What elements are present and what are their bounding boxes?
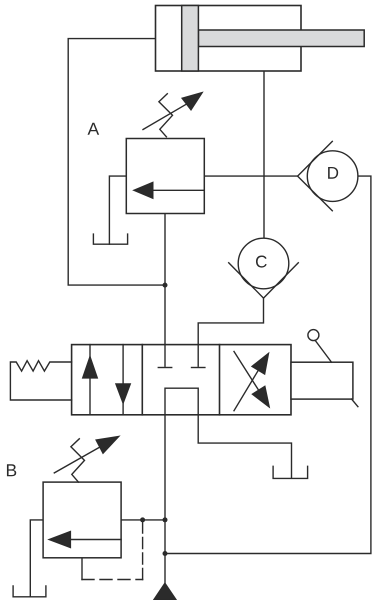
valve left position up arrow bbox=[89, 345, 91, 415]
wire cylinder bottom to C bbox=[263, 71, 265, 238]
wire A right port to D bbox=[204, 175, 297, 177]
label D bbox=[328, 167, 338, 179]
directional valve outer box bbox=[72, 345, 291, 415]
cylinder body bbox=[156, 6, 302, 72]
valve centre blocked port right bbox=[197, 345, 199, 367]
tank at valve T port bbox=[273, 466, 308, 478]
wire B right port bbox=[121, 519, 165, 521]
wire C bottom to valve port bbox=[198, 298, 263, 345]
wire dashed drain horizontal bbox=[82, 579, 143, 581]
valve A adjustment arrow bbox=[143, 104, 187, 130]
wire dashed drain vertical bbox=[142, 522, 144, 580]
valve lever knob bbox=[308, 330, 319, 341]
tank under A bbox=[93, 234, 127, 244]
valve A pressure reducer box bbox=[126, 139, 204, 214]
valve lever handle bbox=[315, 340, 331, 362]
wire valve bottom right to tank bbox=[198, 415, 291, 478]
label A bbox=[88, 123, 100, 135]
node junction dot bottom corner bbox=[163, 551, 168, 556]
node junction dot left riser bbox=[163, 283, 168, 288]
valve B flow arrow bbox=[66, 539, 121, 541]
valve centre blocked port left bbox=[164, 345, 166, 367]
check valve D circle bbox=[307, 151, 358, 202]
valve right position diagonal up arrow bbox=[234, 370, 258, 410]
cylinder rod bbox=[198, 30, 364, 47]
valve A flow arrow bbox=[150, 189, 204, 191]
wire B pilot to tank bbox=[30, 520, 43, 597]
node junction dot B outlet bbox=[163, 517, 168, 522]
wire cylinder left port bbox=[68, 39, 165, 286]
cylinder piston bbox=[182, 6, 199, 72]
valve lever detent tick bbox=[352, 399, 358, 407]
wire main vertical A-to-valve bbox=[164, 214, 166, 345]
valve B pressure relief box bbox=[43, 482, 121, 558]
directional valve divider right bbox=[219, 345, 221, 415]
valve spring return bbox=[10, 361, 71, 400]
directional valve divider left bbox=[141, 345, 143, 415]
label C bbox=[256, 256, 267, 268]
wire A pilot to tank bbox=[109, 176, 126, 244]
label B bbox=[7, 464, 16, 476]
valve centre bypass U bbox=[165, 388, 198, 415]
tank under B bbox=[13, 586, 46, 597]
check valve C seat bbox=[229, 263, 299, 298]
check valve C circle bbox=[238, 238, 289, 289]
check valve D seat bbox=[298, 141, 333, 210]
valve B adjustment spring zigzag bbox=[71, 439, 85, 482]
pressure source triangle bbox=[154, 583, 177, 600]
wire D right side down to bottom bbox=[165, 176, 371, 553]
wire B bottom port bbox=[81, 558, 83, 580]
valve lever actuator box bbox=[291, 362, 353, 399]
valve right position diagonal down arrow bbox=[234, 352, 259, 391]
valve A adjustment spring zigzag bbox=[159, 94, 173, 137]
valve B adjustment arrow bbox=[54, 447, 100, 473]
node junction dot drain tap bbox=[140, 517, 145, 522]
valve left position down arrow bbox=[122, 345, 124, 415]
wire valve bottom left to source bbox=[164, 415, 166, 583]
